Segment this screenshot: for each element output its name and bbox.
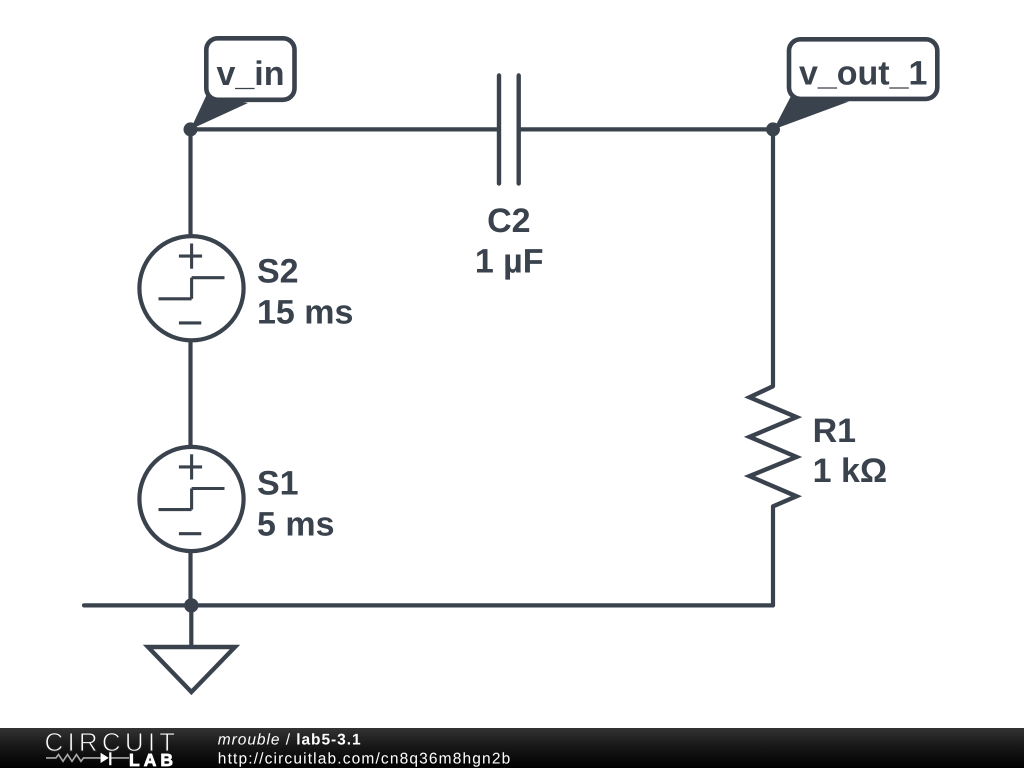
logo diode triangle <box>101 753 109 763</box>
svg-text:5 ms: 5 ms <box>257 505 335 543</box>
svg-text:1 kΩ: 1 kΩ <box>813 452 888 490</box>
svg-text:S2: S2 <box>257 253 299 291</box>
svg-text:C2: C2 <box>487 202 530 240</box>
logo diode bar <box>109 752 111 765</box>
svg-text:mrouble / lab5-3.1: mrouble / lab5-3.1 <box>218 732 362 749</box>
wire: v_in node down to S2 top <box>188 129 192 236</box>
flag tail v_in <box>191 94 249 129</box>
resistor R1 <box>750 386 797 506</box>
svg-text:LAB: LAB <box>129 750 177 768</box>
wire: ground rail <box>84 603 773 607</box>
junction dot ground rail <box>184 598 198 612</box>
flag v_in <box>206 38 294 100</box>
svg-text:15 ms: 15 ms <box>257 294 353 332</box>
footer bar <box>0 728 1024 768</box>
capacitor C2 <box>499 76 519 184</box>
logo symbol: resistor and diode <box>46 755 129 762</box>
wire: v_out node down to R1 top <box>771 129 775 386</box>
node dot v_in <box>184 122 198 136</box>
source S2 <box>139 236 243 340</box>
wire: v_in node to C2 left plate <box>191 127 500 131</box>
flag tail v_out_1 <box>774 96 849 129</box>
svg-text:R1: R1 <box>813 412 856 450</box>
svg-text:1 µF: 1 µF <box>475 243 544 281</box>
source S1 <box>139 447 243 551</box>
wire: S1 bottom to ground rail <box>188 552 192 605</box>
wire: S2 bottom to S1 top <box>188 341 192 447</box>
node dot v_out <box>766 122 780 136</box>
svg-text:v_in: v_in <box>216 55 284 93</box>
svg-text:v_out_1: v_out_1 <box>799 55 928 93</box>
svg-text:http://circuitlab.com/cn8q36m8: http://circuitlab.com/cn8q36m8hgn2b <box>218 750 512 767</box>
wire: C2 right plate to v_out node <box>519 127 773 131</box>
wire: R1 bottom to ground rail <box>771 506 775 605</box>
ground <box>148 605 235 692</box>
svg-text:S1: S1 <box>257 464 299 502</box>
flag v_out_1 <box>789 39 937 99</box>
